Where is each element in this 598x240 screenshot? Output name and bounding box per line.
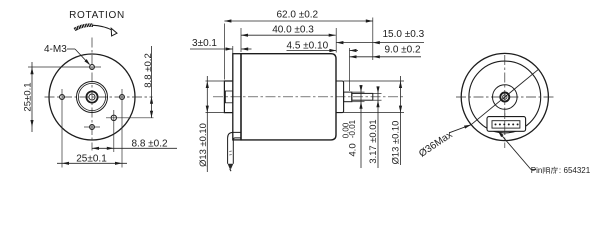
front view: bearing circle (bold) [86,91,97,102]
front view: pilot hole horizontal centerline / extension right [106,117,154,119]
rear view: vertical centerline over connector [504,113,506,135]
rear view: shaft center circle [503,95,507,99]
front view: mounting hole right [120,95,125,100]
svg-text:Ø13 ±0.10: Ø13 ±0.10 [389,121,400,165]
rear view: hub circle [493,85,518,110]
extension line flange front [232,46,234,80]
svg-text:Ø13 ±0.10: Ø13 ±0.10 [197,123,208,167]
side view: rear boss Dia13 [336,81,344,113]
svg-text:25±0.1: 25±0.1 [23,82,34,111]
extension line body front [240,28,242,52]
rear view: connector pins 6x [495,123,497,125]
front view: left hole vertical extension down [61,89,63,168]
svg-text:4.0: 4.0 [348,143,359,156]
side view: front bearing box [225,91,232,103]
dimension Dia13+-0.10 rear boss [400,76,402,165]
front view: pilot hole at 45deg [111,115,116,120]
extension line rear collar end [349,48,351,91]
svg-text:8.8 ±0.2: 8.8 ±0.2 [132,138,169,149]
front view: shaft circle [89,94,95,100]
dimension 25+-0.1 vertical (left) [31,62,33,132]
svg-text:25±0.1: 25±0.1 [76,153,107,164]
front view: mounting hole bottom [90,125,95,130]
rear view: horizontal centerline [456,96,554,98]
dimension 8.8+-0.2 vertical (pilot hole y-offset) [151,46,153,118]
svg-text:0.00: 0.00 [342,122,351,138]
side view: rear shaft Dia3.17 [352,93,373,100]
svg-text::: : [559,166,561,175]
svg-text:3±0.1: 3±0.1 [192,38,217,49]
front view: rotation direction curved arrow [75,25,94,29]
front view: vertical centerline [91,38,93,151]
front view: mounting hole top (M3) [90,65,95,70]
extension line body rear [335,28,337,53]
front view: boss inner chamfer circle [78,83,105,110]
front view: mounting hole left [60,95,65,100]
svg-text:3.17 ±0.01: 3.17 ±0.01 [367,119,378,163]
side view: front flange plate (3mm) [233,54,241,140]
side view: front boss Dia13 [224,81,232,113]
front view: right hole vertical extension down [121,89,123,168]
dimension 3.17+-0.01 shaft dia [377,87,379,168]
svg-text:62.0 ±0.2: 62.0 ±0.2 [276,9,318,20]
svg-text:4.5 ±0.10: 4.5 ±0.10 [287,40,329,51]
dimension 25+-0.1 horizontal (bottom) [57,162,127,164]
CJK glyphs for pin-order label (drawn strokes) [542,167,544,173]
side view: rear bearing collar Dia4 [344,92,352,102]
rear view: crimp ring circle [469,61,541,133]
dimension Dia13+-0.10 front boss [206,76,208,172]
label Pin order 654321 with leader [499,133,531,170]
rear view: vertical centerline [504,55,506,148]
svg-text:9.0 ±0.2: 9.0 ±0.2 [385,44,422,55]
extension line rear shaft tip [372,18,374,61]
side view: lead wire with pointed terminal [228,132,241,163]
dimension 8.8+-0.2 horizontal (pilot hole x-offset) [92,147,177,149]
rear view: connector inner slot [492,121,520,128]
rear view: outer case circle [461,53,548,140]
front view: boss circle Dia13 [77,82,108,113]
dimension 4.0 rear collar dia with tolerances [360,85,362,168]
svg-text:Pin: Pin [531,166,543,175]
svg-text:40.0 ±0.3: 40.0 ±0.3 [272,24,314,35]
front view: pilot hole vertical centerline [113,110,115,152]
rear view: connector housing [487,117,526,132]
side view: horizontal centerline [213,96,404,98]
front view: bottom hole horizontal tick [84,126,100,128]
svg-text:654321: 654321 [564,166,591,175]
front view: top hole horizontal centerline / extension for 25 dim [28,66,101,68]
side view: motor body 40mm [241,54,336,140]
svg-text:15.0 ±0.3: 15.0 ±0.3 [383,29,425,40]
rear view: bearing circle (bold) [500,93,509,102]
dimension 62.0+-0.2 overall length [224,20,372,22]
svg-text:4-M3: 4-M3 [44,44,67,55]
front view: outer case circle (Dia 36) [49,54,135,140]
dimension 40.0+-0.3 body length [241,34,336,36]
svg-text:8.8 ±0.2: 8.8 ±0.2 [143,53,154,88]
front view: horizontal centerline [45,96,153,98]
extension line front boss face [223,24,225,80]
svg-text:ROTATION: ROTATION [69,10,125,21]
